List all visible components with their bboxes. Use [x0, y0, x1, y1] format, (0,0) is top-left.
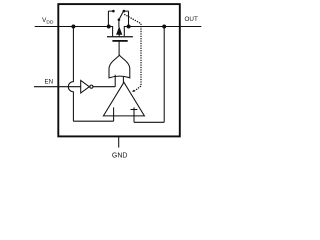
svg-text:GND: GND [112, 152, 128, 159]
bulk switch S1 right throw bracket (to OUT side) [124, 11, 129, 26]
wire: EN input to inverter [34, 86, 81, 88]
PMOS pass transistor Q1 channel plate [107, 36, 133, 38]
node: VDD branch junction [71, 25, 75, 29]
IC block outline [58, 4, 180, 136]
wire: VDD rail into source lead of Q1 [35, 27, 113, 37]
PMOS Q1 bulk arrow (body diode) [117, 27, 122, 34]
node: drain junction on OUT rail [127, 25, 131, 29]
comparator A1 noninverting input lead [133, 107, 135, 122]
bulk switch S1 left contact dot [112, 10, 115, 13]
node: feedback tap on OUT rail [162, 25, 166, 29]
node: source junction on VDD rail [107, 25, 111, 29]
wire: feedback from OUT rail to noninverting input [134, 27, 164, 123]
svg-text:EN: EN [45, 79, 54, 86]
inverter U1 output bubble [90, 85, 93, 88]
comparator A1 inverting input lead [113, 107, 115, 121]
wire: VDD branch down with hop over EN, to bottom rail, to inverting input [68, 27, 113, 121]
bulk switch S1 pole lead to bulk of Q1 [118, 20, 120, 28]
wire: GND stub [118, 136, 120, 147]
OR gate G1 [109, 55, 130, 78]
inverter U1 [81, 80, 90, 93]
bulk switch S1 right contact dot [123, 10, 126, 13]
wire: OR gate right input stub from comparator output apex [122, 77, 124, 83]
bulk switch S1 left throw bracket (to VDD side) [108, 11, 113, 26]
PMOS Q1 gate plate [112, 40, 127, 42]
wire: OR gate output to gate of Q1 [118, 41, 120, 55]
wire: inverter output to OR gate left input [93, 75, 115, 87]
bulk switch S1 pole pivot dot [118, 18, 121, 21]
wire: drain lead of Q1 to OUT pin rail [124, 27, 201, 37]
svg-text:OUT: OUT [185, 16, 198, 23]
dashed linkage arrowhead [132, 90, 135, 92]
PMOS Q1 bulk arrow stem [118, 34, 120, 36]
comparator A1 body [103, 82, 144, 116]
comparator A1 plus tick [131, 109, 138, 111]
bulk switch S1 lever [119, 11, 124, 20]
dashed control linkage from comparator to switch S1 [125, 15, 141, 91]
